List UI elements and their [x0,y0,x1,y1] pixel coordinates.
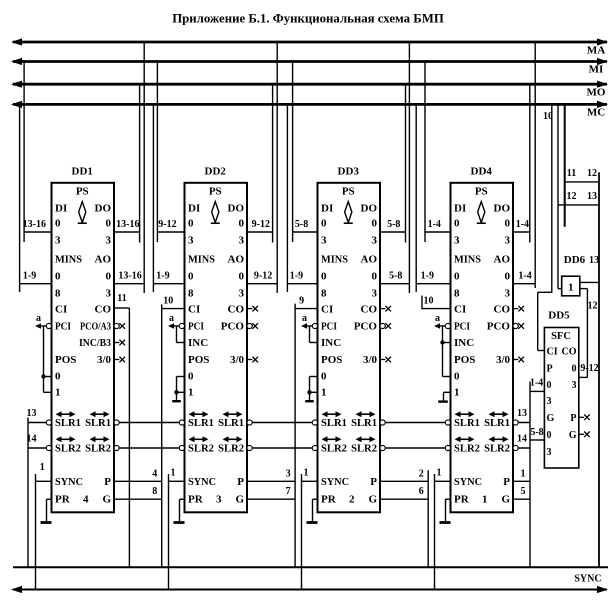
svg-text:0: 0 [55,218,61,230]
svg-text:0: 0 [547,380,552,391]
wire: AO output bundle of DD4, pins 1-4 [513,283,535,285]
bus MO [13,83,607,86]
input a at PCI pin of DD4 [440,325,446,327]
wire: MC bus drop to pins 11,12 link [564,104,566,226]
bus SYNC (bottom) [13,589,607,591]
wire: P output pin 4 of DD1 [114,480,162,482]
wire: G output pin 8 of DD1 [114,498,162,500]
svg-text:0: 0 [188,371,194,383]
svg-text:PCI: PCI [55,321,71,333]
svg-text:MI: MI [589,64,604,76]
svg-text:3/0: 3/0 [363,354,378,366]
svg-text:5-8: 5-8 [530,427,543,438]
wire: CI input pin 9 of DD3 [295,308,317,310]
wire: right vertical to common line [598,172,600,567]
svg-text:INC: INC [454,337,474,349]
svg-text:12: 12 [588,301,598,312]
wire: MINS input bundle of DD1, pins 1-9 [20,283,52,285]
svg-text:INC: INC [321,337,341,349]
bus MA [13,41,607,44]
svg-text:SLR2: SLR2 [351,444,377,455]
wire: G output pin 6 of DD3 [380,498,428,500]
wire: vertical collector line [427,470,429,567]
shift arrows of DD2 [193,413,205,415]
wire: DD3 AO outputs up to MA bus [408,42,410,293]
wire: PCI to INC of DD3 [309,326,311,343]
ground at PR pin of DD4 [446,498,451,500]
svg-text:9: 9 [299,296,304,307]
wire: DD4 DO outputs up to MO bus [529,84,531,242]
wire: DD6 output pin 12 to DD5 [580,288,588,290]
wire: vertical collector line [421,296,423,310]
svg-text:0: 0 [239,271,245,283]
svg-text:13-16: 13-16 [118,271,141,282]
svg-text:CI: CI [55,304,67,316]
svg-text:MINS: MINS [55,254,82,266]
wire: link pins 12-13 [558,204,599,206]
svg-text:13: 13 [517,408,527,419]
svg-text:Приложение Б.1. Функциональная: Приложение Б.1. Функциональная схема БМП [172,12,444,26]
svg-text:1: 1 [304,468,309,479]
wire: link pins 11-12 [565,181,599,183]
svg-text:P: P [570,413,576,424]
svg-text:3/0: 3/0 [97,354,112,366]
wire: SLR2 pin 14 of DD4 [513,447,530,449]
svg-text:2: 2 [349,494,355,506]
svg-text:10: 10 [543,111,553,122]
svg-text:3: 3 [505,288,511,300]
svg-text:G: G [102,494,111,506]
wire: SLR1/SLR2 pins 13,14 of DD1 to common line [27,418,29,568]
svg-text:12: 12 [587,168,597,179]
shift arrows of DD4 [459,413,471,415]
wire: MC bus drop to DD4 MINS inputs [415,104,417,292]
svg-text:1: 1 [482,494,488,506]
ground at PR pin of DD1 [47,498,52,500]
svg-text:P: P [503,476,510,488]
input a at PCI pin of DD3 [307,325,313,327]
svg-text:MA: MA [587,45,605,57]
svg-text:1: 1 [437,468,442,479]
svg-text:MINS: MINS [188,254,215,266]
svg-text:1-4: 1-4 [530,378,543,389]
wire: DD2 AO outputs up to MA bus [276,42,278,293]
svg-text:DO: DO [95,203,112,215]
svg-text:0: 0 [372,218,378,230]
svg-text:3: 3 [454,235,460,247]
svg-text:P: P [237,476,244,488]
svg-text:MINS: MINS [454,254,481,266]
svg-text:3: 3 [106,235,112,247]
svg-text:1: 1 [171,468,176,479]
svg-text:SFC: SFC [551,331,571,342]
wire: PCI to INC of DD2 [176,326,178,343]
svg-text:SLR2: SLR2 [321,444,347,455]
svg-text:PR: PR [321,494,337,506]
svg-text:SLR1: SLR1 [351,418,377,429]
svg-text:SLR1: SLR1 [188,418,214,429]
wire: AO output bundle of DD2, pins 9-12 [247,283,277,285]
svg-text:4: 4 [152,469,157,480]
svg-text:1: 1 [568,282,574,294]
svg-text:1-4: 1-4 [516,219,529,230]
svg-text:a: a [435,313,440,324]
ALU diamond symbol of DD3 [345,202,352,223]
wire: G output pin 5 of DD4 [513,498,530,500]
svg-text:1-9: 1-9 [156,271,169,282]
wire: elbow to DD5 CI [538,291,552,293]
svg-text:9-12: 9-12 [580,363,598,374]
input a at PCI pin of DD2 [174,325,180,327]
wire: DO output bundle of DD4, pins 1-4 [513,231,530,233]
svg-text:DI: DI [454,203,466,215]
svg-text:0: 0 [55,371,61,383]
wire: MC bus drop to DD3 MINS inputs [286,104,288,292]
svg-text:5: 5 [521,486,526,497]
wire: CO output pin 11 of DD1 down to common line [114,307,129,309]
wire: MC bus drop pin 10 toward DD5 CI [551,104,553,293]
wire: SLR2 link DD2-DD3 [247,447,318,449]
svg-text:SYNC: SYNC [188,476,216,488]
wire: AO output bundle of DD1, pins 13-16 [114,283,144,285]
svg-text:MINS: MINS [321,254,348,266]
svg-text:14: 14 [27,434,37,445]
svg-text:DO: DO [494,203,511,215]
svg-text:SLR1: SLR1 [484,418,510,429]
svg-text:SYNC: SYNC [454,476,482,488]
svg-text:AO: AO [228,254,245,266]
svg-text:0: 0 [454,218,460,230]
svg-text:SLR2: SLR2 [484,444,510,455]
svg-text:3: 3 [106,288,112,300]
svg-text:AO: AO [494,254,511,266]
svg-text:PS: PS [76,186,89,198]
wire: SLR2 link DD1-DD2 [114,447,185,449]
svg-text:3: 3 [321,235,327,247]
svg-text:P: P [547,364,553,375]
wire: SLR1 link DD2-DD3 [247,422,318,424]
wire: DO output bundle of DD2, pins 9-12 [247,231,273,233]
wire: P output pin 3 of DD2 [247,480,295,482]
svg-text:5-8: 5-8 [387,219,400,230]
svg-text:0: 0 [572,364,577,375]
svg-text:5-8: 5-8 [389,271,402,282]
wire: vertical collector line [294,304,296,568]
svg-text:3: 3 [372,235,378,247]
inverted pins of DD3 [312,323,317,328]
svg-text:13: 13 [27,408,37,419]
svg-text:G: G [501,494,510,506]
svg-text:0: 0 [239,218,245,230]
svg-text:DD2: DD2 [205,166,227,178]
wire: MC bus drop to DD2 MINS inputs [152,104,154,292]
svg-text:DO: DO [228,203,245,215]
svg-text:8: 8 [152,486,157,497]
svg-text:POS: POS [321,354,342,366]
svg-text:POS: POS [55,354,76,366]
svg-text:0: 0 [505,218,511,230]
shift arrows of DD1 [60,413,72,415]
wire: PCI to INC and POS 0 of DD4 [442,326,444,377]
svg-text:PR: PR [55,494,71,506]
svg-text:PS: PS [342,186,355,198]
svg-text:8: 8 [321,288,327,300]
svg-text:SYNC: SYNC [574,574,601,585]
svg-text:2: 2 [419,469,424,480]
wire: DD2 DO outputs up to MO bus [272,84,274,242]
svg-text:G: G [235,494,244,506]
svg-text:0: 0 [505,271,511,283]
svg-text:0: 0 [547,430,552,441]
svg-text:0: 0 [321,271,327,283]
svg-text:1: 1 [55,387,61,399]
svg-text:CO: CO [562,347,577,358]
svg-text:0: 0 [106,218,112,230]
svg-text:8: 8 [188,288,194,300]
svg-text:13-16: 13-16 [23,219,46,230]
svg-text:1: 1 [188,387,194,399]
svg-text:1: 1 [521,469,526,480]
svg-text:PCI: PCI [454,321,470,333]
unconnected P,G outputs of DD5 [579,416,584,418]
svg-text:AO: AO [95,254,112,266]
wire: DD1 DO outputs up to MO bus [139,84,141,242]
wire: SYNC pin 1 of DD3 down to SYNC bus [301,474,303,590]
svg-text:DI: DI [188,203,200,215]
wire: DD4 AO outputs up to MA bus [534,42,536,288]
svg-text:INC/B3: INC/B3 [79,338,111,349]
svg-text:DI: DI [55,203,67,215]
svg-text:13: 13 [587,191,597,202]
wire: DD5 G inputs 5-8 [530,439,544,441]
wire: SLR1 pin 13 of DD4 [513,422,530,424]
svg-text:7: 7 [286,486,291,497]
wire: SLR2 link DD3-DD4 [380,447,451,449]
ALU diamond symbol of DD1 [79,202,86,223]
svg-text:CO: CO [494,304,511,316]
wire: MC bus drop to DD6 input [557,104,559,288]
wire: vertical collector line [161,304,163,567]
svg-text:3: 3 [572,380,577,391]
svg-text:SYNC: SYNC [321,476,349,488]
svg-text:9-12: 9-12 [252,219,270,230]
svg-text:CO: CO [361,304,378,316]
wire: DI input bundle of DD3, pins 5-8 [293,231,318,233]
svg-text:SLR2: SLR2 [454,444,480,455]
svg-text:PR: PR [188,494,204,506]
svg-text:3: 3 [216,494,222,506]
wire: MINS input bundle of DD3, pins 1-9 [287,283,317,285]
svg-text:1: 1 [321,387,327,399]
svg-text:PCI: PCI [321,321,337,333]
svg-text:3: 3 [547,447,552,458]
svg-text:13: 13 [589,255,599,266]
svg-text:1-9: 1-9 [23,271,36,282]
wire: SLR1 link DD3-DD4 [380,422,451,424]
svg-text:SLR2: SLR2 [85,444,111,455]
svg-text:PCO: PCO [221,321,245,333]
svg-text:0: 0 [188,271,194,283]
svg-text:10: 10 [424,296,434,307]
svg-text:G: G [569,430,577,441]
svg-text:POS: POS [188,354,209,366]
svg-text:1-4: 1-4 [428,219,441,230]
svg-text:PS: PS [209,186,222,198]
svg-text:6: 6 [419,486,424,497]
svg-text:a: a [169,313,174,324]
ground at PR pin of DD2 [180,498,185,500]
wire: SYNC pin 1 of DD1 down to SYNC bus [35,474,37,590]
wire: MI bus drop to DD2 DI inputs [156,62,158,243]
wire: SYNC pin 1 of DD2 down to SYNC bus [168,474,170,590]
svg-text:10: 10 [163,296,173,307]
svg-text:MC: MC [587,107,605,119]
svg-text:3/0: 3/0 [496,354,511,366]
svg-text:0: 0 [55,271,61,283]
svg-text:SYNC: SYNC [55,476,83,488]
svg-text:9-12: 9-12 [254,271,272,282]
svg-text:0: 0 [321,371,327,383]
wire: DO output bundle of DD1, pins 13-16 [114,231,140,233]
svg-text:3: 3 [239,288,245,300]
svg-text:SLR2: SLR2 [188,444,214,455]
svg-text:a: a [36,313,41,324]
svg-text:DD6: DD6 [564,254,586,266]
svg-text:PS: PS [475,186,488,198]
input a at PCI pin of DD1 [41,325,47,327]
bus MI [13,60,607,63]
svg-text:SLR2: SLR2 [55,444,81,455]
wire: P output pin 1 of DD4 [513,480,530,482]
inverted pins of DD2 [179,323,184,328]
svg-text:P: P [104,476,111,488]
svg-text:5-8: 5-8 [295,219,308,230]
wire: DI input bundle of DD2, pins 9-12 [157,231,184,233]
wire: G output pin 7 of DD2 [247,498,295,500]
wire: MINS input bundle of DD4, pins 1-9 [416,283,450,285]
wire: PCI to POS 0,1 of DD1 [43,326,45,392]
svg-text:DD1: DD1 [72,166,93,178]
wire: CI input pin 10 of DD2 [162,308,185,310]
svg-text:0: 0 [321,218,327,230]
svg-text:CO: CO [228,304,245,316]
svg-text:9-12: 9-12 [158,219,176,230]
svg-text:0: 0 [106,271,112,283]
svg-text:3: 3 [286,469,291,480]
wire: MC bus drop to DD1 MINS inputs [19,104,21,292]
wire: DO output bundle of DD3, pins 5-8 [380,231,406,233]
svg-text:1-9: 1-9 [290,271,303,282]
svg-text:SLR1: SLR1 [55,418,81,429]
svg-text:CI: CI [454,304,466,316]
wire: DD6 output pin 13 [580,281,599,283]
svg-text:SLR1: SLR1 [218,418,244,429]
wire: MINS input bundle of DD2, pins 1-9 [153,283,184,285]
wire: DD3 DO outputs up to MO bus [405,84,407,242]
svg-text:CI: CI [547,347,558,358]
svg-text:1-4: 1-4 [518,271,531,282]
ALU diamond symbol of DD2 [212,202,219,223]
svg-text:a: a [302,313,307,324]
ground at POS 0,1 of DD2 [177,376,185,378]
svg-text:CI: CI [321,304,333,316]
svg-text:3/0: 3/0 [230,354,245,366]
wire: MI bus drop to DD3 DI inputs [292,62,294,243]
wire: MI bus drop to DD4 DI inputs [424,62,426,243]
svg-text:G: G [368,494,377,506]
svg-text:SLR1: SLR1 [85,418,111,429]
svg-text:DI: DI [321,203,333,215]
svg-text:3: 3 [505,235,511,247]
svg-text:PR: PR [454,494,470,506]
svg-text:DD5: DD5 [548,310,570,322]
svg-text:DD3: DD3 [338,166,360,178]
svg-text:P: P [370,476,377,488]
wire: AO output bundle of DD3, pins 5-8 [380,283,409,285]
svg-text:SLR1: SLR1 [454,418,480,429]
common line (bottom, upper) [13,566,608,568]
svg-text:SLR2: SLR2 [218,444,244,455]
svg-text:3: 3 [547,396,552,407]
inverted pins of DD1 [46,323,51,328]
wire: SLR1 link DD1-DD2 [114,422,185,424]
svg-text:0: 0 [454,371,460,383]
svg-text:INC: INC [188,337,208,349]
ALU diamond symbol of DD4 [478,202,485,223]
svg-text:12: 12 [567,191,577,202]
svg-text:3: 3 [239,235,245,247]
inverted pins of DD4 [445,323,450,328]
ground at POS 0,1 of DD3 [310,376,318,378]
svg-text:8: 8 [454,288,460,300]
svg-text:3: 3 [188,235,194,247]
svg-text:8: 8 [55,288,61,300]
shift arrows of DD3 [326,413,338,415]
svg-text:PCO/A3: PCO/A3 [80,322,111,333]
svg-text:0: 0 [188,218,194,230]
svg-text:G: G [547,413,555,424]
wire: DI input bundle of DD4, pins 1-4 [425,231,451,233]
svg-text:1: 1 [454,387,460,399]
svg-text:11: 11 [567,168,576,179]
svg-text:3: 3 [372,288,378,300]
svg-text:PCO: PCO [487,321,511,333]
svg-text:1: 1 [40,462,45,473]
wire: P output pin 2 of DD3 [380,480,428,482]
wire: vertical collector line [529,382,531,568]
svg-text:PCO: PCO [354,321,378,333]
wire: DD5 P inputs 1-4 [530,390,544,392]
svg-text:4: 4 [83,494,89,506]
wire: DD1 AO outputs up to MA bus [143,42,145,293]
svg-text:CO: CO [95,304,112,316]
wire: SYNC pin 1 of DD4 down to SYNC bus [434,474,436,590]
wire: CI input pin 10 of DD4 [422,308,451,310]
ground at POS 1 of DD4 [444,391,451,393]
svg-text:POS: POS [454,354,475,366]
svg-text:14: 14 [517,434,527,445]
svg-text:AO: AO [361,254,378,266]
svg-text:DO: DO [361,203,378,215]
svg-text:PCI: PCI [188,321,204,333]
ground at PR pin of DD3 [313,498,318,500]
svg-text:MO: MO [587,87,606,99]
svg-text:11: 11 [117,293,126,304]
svg-text:0: 0 [454,271,460,283]
svg-text:CI: CI [188,304,200,316]
svg-text:3: 3 [55,235,61,247]
svg-text:0: 0 [372,271,378,283]
